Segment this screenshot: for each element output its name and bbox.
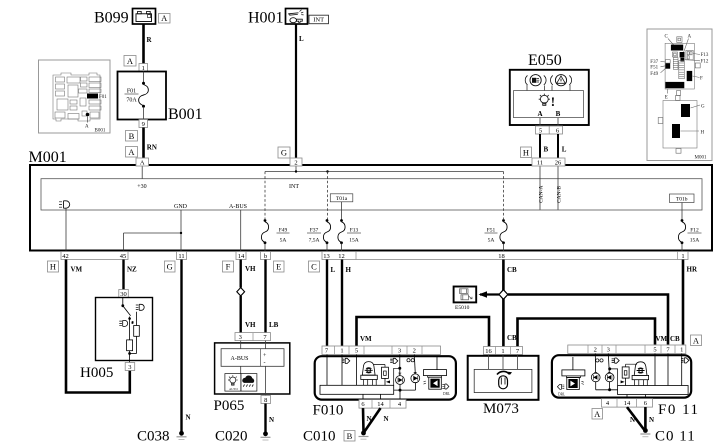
svg-text:L: L bbox=[562, 146, 567, 154]
svg-text:CB: CB bbox=[507, 334, 517, 342]
svg-text:C: C bbox=[311, 262, 317, 272]
node A-BUS bbox=[229, 204, 247, 251]
pins 5 6 (E050) bbox=[536, 126, 563, 134]
arrow to E5010 bbox=[479, 291, 500, 298]
splice junction (CB wire) bbox=[499, 290, 508, 300]
svg-text:5A: 5A bbox=[280, 238, 287, 244]
svg-text:A: A bbox=[85, 125, 89, 130]
svg-text:A: A bbox=[128, 147, 135, 157]
svg-text:18: 18 bbox=[498, 253, 505, 260]
svg-text:G: G bbox=[167, 262, 173, 272]
svg-text:14: 14 bbox=[377, 401, 384, 408]
svg-text:F51: F51 bbox=[650, 66, 658, 71]
wire HR (M001 pin 1 to F011 pin 1) bbox=[683, 260, 698, 345]
rain/twilight sensor P065 bbox=[214, 341, 290, 414]
low beam icon bbox=[345, 358, 350, 363]
wire L (pin 13 to F010 pin 7) bbox=[327, 260, 336, 347]
switch H005 bbox=[80, 298, 153, 382]
svg-text:N: N bbox=[186, 414, 191, 422]
headlight symbol (M001 internal, pin 42) bbox=[59, 201, 70, 251]
svg-text:42: 42 bbox=[62, 253, 69, 260]
position light icon bbox=[596, 359, 599, 362]
wire H (pin 12 to F010 pin 1) bbox=[342, 260, 352, 347]
svg-text:M001: M001 bbox=[695, 156, 707, 161]
splice junction (VH wire) bbox=[237, 288, 245, 296]
svg-text:11: 11 bbox=[178, 253, 184, 260]
ground C038 bbox=[137, 429, 187, 445]
twilight sensor icon bbox=[225, 374, 241, 392]
svg-text:b: b bbox=[264, 253, 267, 260]
connector letter F (below pin 14) bbox=[223, 261, 234, 272]
svg-text:C010: C010 bbox=[303, 429, 336, 445]
node INT bbox=[265, 166, 504, 220]
position light icon bbox=[407, 359, 410, 362]
svg-text:CAN-B: CAN-B bbox=[557, 186, 563, 203]
svg-text:VM: VM bbox=[360, 335, 372, 343]
svg-text:1: 1 bbox=[340, 347, 343, 354]
svg-text:NZ: NZ bbox=[127, 266, 137, 274]
wire L (E050 to M001 pin 26) bbox=[558, 134, 567, 158]
pins 16 1 7 (M073 top) bbox=[484, 347, 523, 355]
svg-text:N: N bbox=[649, 416, 654, 424]
svg-text:AUTO: AUTO bbox=[229, 387, 238, 391]
pins 13 12 18 1 (M001 bottom strip) bbox=[322, 252, 688, 260]
svg-text:B: B bbox=[347, 431, 353, 441]
pins 6 14 4 (F010 bottom) bbox=[359, 400, 406, 409]
svg-text:1: 1 bbox=[680, 346, 683, 353]
svg-text:C020: C020 bbox=[215, 429, 248, 445]
svg-text:1: 1 bbox=[681, 253, 684, 260]
wire VM (pin 42 to H005 pin 3) bbox=[66, 260, 130, 393]
svg-text:B099: B099 bbox=[94, 10, 129, 27]
svg-text:L: L bbox=[299, 35, 304, 43]
fuse F01 70A bbox=[125, 72, 149, 120]
pin 9 (B001) bbox=[139, 120, 148, 128]
svg-text:A: A bbox=[594, 409, 601, 419]
svg-text:2: 2 bbox=[294, 159, 297, 166]
pin 11 (M001 bottom) bbox=[177, 252, 187, 260]
wire N (F011 pin 6 to C011) bbox=[645, 407, 654, 429]
wire N (F010 pin 6 to C010) bbox=[363, 408, 372, 431]
low beam icon bbox=[684, 358, 689, 363]
DRL module bbox=[436, 357, 438, 370]
wire VH (splice to P065) bbox=[241, 296, 256, 333]
svg-text:5: 5 bbox=[355, 347, 358, 354]
connector letter H (E050 wires) bbox=[521, 147, 532, 158]
svg-text:A-BUS: A-BUS bbox=[231, 356, 249, 362]
svg-text:F49: F49 bbox=[279, 227, 288, 233]
svg-text:12: 12 bbox=[338, 253, 345, 260]
wire VM (M073 pin 7 to F011 pin 5) bbox=[518, 319, 668, 347]
svg-text:3: 3 bbox=[128, 364, 131, 371]
pin 14 (M001 bottom) bbox=[236, 252, 246, 260]
wire CB (pin 18 down to M073 pin 1) bbox=[503, 260, 517, 347]
bus bar bbox=[618, 386, 689, 395]
rain sensor icon bbox=[241, 374, 257, 392]
svg-text:F51: F51 bbox=[487, 227, 496, 233]
svg-text:F010: F010 bbox=[313, 403, 344, 419]
node T01b bbox=[670, 194, 695, 220]
pin b (M001 bottom) bbox=[261, 252, 271, 260]
inset connector layout M001 bbox=[647, 29, 712, 161]
svg-text:3: 3 bbox=[398, 347, 401, 354]
svg-text:F01: F01 bbox=[99, 95, 107, 100]
svg-text:VH: VH bbox=[245, 265, 256, 273]
svg-text:LB: LB bbox=[269, 321, 279, 329]
svg-text:C0 11: C0 11 bbox=[655, 429, 696, 445]
ground C011 bbox=[640, 428, 695, 444]
pin 1 (B001) bbox=[139, 64, 148, 72]
svg-text:GND: GND bbox=[174, 204, 188, 210]
INT label box (H001) bbox=[309, 15, 329, 24]
pin 8 (P065 bottom) bbox=[261, 396, 271, 404]
svg-text:45: 45 bbox=[120, 253, 127, 260]
connector letter G (above M001 pin 2) bbox=[278, 147, 290, 158]
svg-text:CAN-A: CAN-A bbox=[539, 186, 545, 203]
connector E5010 bbox=[454, 287, 477, 312]
battery B099 bbox=[94, 9, 156, 27]
svg-text:A: A bbox=[693, 335, 700, 345]
svg-text:E: E bbox=[276, 262, 281, 272]
fuse F37 7,5A bbox=[307, 219, 331, 251]
svg-text:-: - bbox=[264, 361, 266, 367]
resistor bbox=[626, 364, 637, 367]
wire CB branch (splice to F011 pin 7) bbox=[508, 295, 680, 345]
wire LB (pin b to P065 pin 7) bbox=[266, 260, 279, 333]
svg-text:DRL: DRL bbox=[443, 392, 450, 396]
pins 11 26 (M001 top) bbox=[532, 158, 565, 166]
svg-text:T01b: T01b bbox=[676, 197, 688, 203]
svg-text:F: F bbox=[226, 262, 231, 272]
wire RN bbox=[144, 128, 157, 159]
ground C010 bbox=[303, 429, 369, 445]
pins 2 3 5 7 1 (F011 top) bbox=[568, 345, 686, 354]
wire VH (pin 14 to P065 pin 3) bbox=[241, 260, 256, 288]
svg-text:E5010: E5010 bbox=[455, 305, 470, 311]
bus bar bbox=[320, 385, 394, 394]
svg-text:5: 5 bbox=[539, 127, 542, 134]
connector letter A (above B001) bbox=[124, 56, 136, 67]
svg-text:N: N bbox=[630, 416, 635, 424]
node T01a bbox=[330, 194, 353, 220]
svg-text:F12: F12 bbox=[690, 227, 699, 233]
svg-text:H: H bbox=[50, 262, 56, 272]
pin 3 (H005) bbox=[125, 363, 135, 371]
svg-text:H005: H005 bbox=[80, 365, 113, 381]
pin 30 (H005) bbox=[119, 290, 129, 298]
junction to bus bbox=[394, 368, 400, 385]
pin 2 (M001 top) bbox=[290, 158, 302, 166]
svg-text:VH: VH bbox=[245, 321, 256, 329]
inset fuse-box layout B001 bbox=[39, 60, 111, 134]
pins 42 45 (M001 bottom) bbox=[61, 252, 128, 260]
svg-text:2: 2 bbox=[413, 347, 416, 354]
wire R (B099 to B001) bbox=[144, 24, 153, 64]
svg-text:+30: +30 bbox=[137, 184, 146, 190]
svg-text:B001: B001 bbox=[168, 106, 203, 123]
right branch lamp bbox=[139, 304, 144, 310]
svg-text:F: F bbox=[700, 77, 703, 82]
svg-text:A: A bbox=[161, 13, 168, 23]
svg-text:16: 16 bbox=[485, 348, 492, 355]
wire B (E050 to M001 pin 11) bbox=[540, 134, 549, 158]
svg-text:F49: F49 bbox=[650, 72, 658, 77]
connector letter H (below pin 42) bbox=[48, 261, 59, 272]
svg-text:HR: HR bbox=[687, 266, 698, 274]
projector lamp bbox=[362, 362, 375, 376]
connector letter A (B099) bbox=[159, 13, 171, 23]
svg-text:G: G bbox=[701, 105, 705, 110]
svg-text:N: N bbox=[384, 415, 389, 423]
svg-text:13: 13 bbox=[323, 253, 330, 260]
connector letter C (below pin 13) bbox=[309, 261, 320, 272]
svg-text:B: B bbox=[129, 131, 135, 141]
wire N (F010 pin 14 to C010) bbox=[365, 408, 389, 431]
connector letter A (F011 bottom) bbox=[592, 409, 603, 420]
svg-text:E050: E050 bbox=[528, 52, 562, 69]
node CAN-B bbox=[557, 166, 563, 210]
pins 4 14 6 (F011 bottom) bbox=[602, 399, 653, 408]
svg-text:F13: F13 bbox=[701, 53, 709, 58]
pin A (M001 top) bbox=[136, 158, 149, 166]
svg-text:A-BUS: A-BUS bbox=[229, 204, 247, 210]
svg-text:CB: CB bbox=[507, 266, 517, 274]
bulb (position) bbox=[413, 355, 416, 373]
svg-text:B001: B001 bbox=[95, 129, 106, 134]
warning triangle telltale bbox=[551, 75, 572, 86]
svg-text:F0 11: F0 11 bbox=[658, 402, 700, 418]
svg-text:G: G bbox=[281, 148, 287, 158]
svg-text:8: 8 bbox=[264, 397, 267, 404]
fuse box B001 bbox=[118, 72, 203, 124]
svg-text:M001: M001 bbox=[29, 149, 67, 166]
svg-text:26: 26 bbox=[555, 159, 562, 166]
svg-text:5A: 5A bbox=[488, 238, 495, 244]
svg-text:B: B bbox=[544, 146, 549, 154]
node GND bbox=[124, 204, 188, 251]
pins 7 1 5 3 2 (F010 top) bbox=[322, 346, 441, 355]
svg-text:T01a: T01a bbox=[336, 196, 348, 202]
svg-text:11: 11 bbox=[537, 159, 543, 166]
headlight assembly F011 bbox=[552, 354, 700, 419]
connector letter A (right of F011 pins) bbox=[691, 335, 702, 346]
svg-text:F37: F37 bbox=[310, 227, 319, 233]
left lamp bbox=[123, 320, 128, 326]
svg-text:VM: VM bbox=[71, 266, 83, 274]
node CAN-A bbox=[539, 166, 545, 210]
connector letter E (below pin b) bbox=[274, 261, 285, 272]
projector lamp bbox=[634, 362, 647, 376]
svg-text:B: B bbox=[556, 110, 561, 118]
svg-text:14: 14 bbox=[238, 253, 245, 260]
connector letter G (below pin 11) bbox=[165, 261, 176, 272]
DRL module bbox=[572, 357, 574, 370]
svg-text:F01: F01 bbox=[127, 89, 136, 95]
ignition switch H001 bbox=[248, 9, 308, 27]
wire VM (F010 pin 5 to M073 pin 16) bbox=[357, 317, 490, 347]
svg-text:N: N bbox=[269, 416, 274, 424]
svg-text:H001: H001 bbox=[248, 10, 284, 27]
connector letter B (C010) bbox=[344, 431, 355, 442]
bulb (high beam) bbox=[399, 355, 401, 376]
fuse F51 5A bbox=[485, 219, 508, 251]
connector letter B (below B001) bbox=[126, 131, 138, 142]
svg-text:M073: M073 bbox=[483, 401, 519, 417]
svg-text:70A: 70A bbox=[126, 98, 137, 104]
svg-text:RN: RN bbox=[147, 144, 157, 152]
svg-text:CB: CB bbox=[670, 335, 680, 343]
svg-text:F12: F12 bbox=[701, 60, 709, 65]
body computer M001 bbox=[29, 149, 713, 251]
high beam icon bbox=[393, 358, 398, 363]
fuse F49 5A bbox=[261, 219, 289, 251]
resistor bbox=[374, 365, 386, 368]
svg-text:A: A bbox=[127, 56, 134, 66]
svg-text:C038: C038 bbox=[137, 429, 170, 445]
svg-text:3: 3 bbox=[607, 346, 610, 353]
ground C020 bbox=[215, 429, 271, 445]
svg-text:VM: VM bbox=[656, 335, 668, 343]
svg-text:3: 3 bbox=[239, 334, 242, 341]
svg-text:E: E bbox=[665, 96, 668, 101]
high beam icon bbox=[615, 358, 620, 363]
svg-text:9: 9 bbox=[142, 121, 145, 128]
junction to bus bbox=[611, 369, 618, 386]
svg-text:H: H bbox=[523, 147, 529, 157]
svg-text:H: H bbox=[701, 131, 705, 136]
svg-text:A: A bbox=[537, 110, 542, 118]
svg-text:15A: 15A bbox=[349, 238, 359, 244]
svg-text:15A: 15A bbox=[690, 238, 700, 244]
connector letter A (above M001 pin A) bbox=[126, 147, 138, 158]
wire N (P065 to C020) bbox=[266, 404, 275, 433]
wire NZ (pin 45 to H005 pin 30) bbox=[124, 260, 138, 290]
svg-text:7,5A: 7,5A bbox=[309, 238, 320, 244]
svg-text:INT: INT bbox=[289, 184, 299, 190]
svg-text:F13: F13 bbox=[350, 227, 359, 233]
pins 3 7 (P065 top) bbox=[235, 333, 271, 341]
svg-text:INT: INT bbox=[313, 17, 324, 24]
rain and twilight sensor M073 bbox=[468, 355, 539, 418]
svg-text:!: ! bbox=[551, 94, 555, 109]
svg-text:L: L bbox=[331, 266, 336, 274]
wire N (pin 11 to C038) bbox=[182, 260, 191, 433]
fuse F12 15A bbox=[678, 219, 701, 251]
wire N (F011 pin 14 to C011) bbox=[627, 407, 644, 429]
svg-text:A: A bbox=[140, 159, 145, 166]
fuse F13 15A bbox=[338, 219, 361, 251]
bulb (high beam) bbox=[608, 354, 609, 374]
sidelight telltale bbox=[525, 75, 546, 86]
bulb failure icon bbox=[539, 94, 550, 106]
svg-text:H: H bbox=[346, 266, 352, 274]
svg-text:1: 1 bbox=[501, 348, 504, 355]
svg-text:DRL: DRL bbox=[558, 393, 565, 397]
wire L (H001 to M001 pin 2) bbox=[296, 24, 304, 158]
bulb (position) bbox=[594, 354, 596, 373]
svg-text:P065: P065 bbox=[214, 398, 245, 414]
svg-text:2: 2 bbox=[594, 346, 597, 353]
svg-text:F37: F37 bbox=[650, 60, 658, 65]
node +30 bbox=[137, 166, 146, 190]
headlight assembly F010 bbox=[313, 355, 456, 419]
svg-text:14: 14 bbox=[624, 400, 631, 407]
svg-text:5: 5 bbox=[653, 346, 656, 353]
instrument cluster E050 bbox=[510, 52, 589, 126]
